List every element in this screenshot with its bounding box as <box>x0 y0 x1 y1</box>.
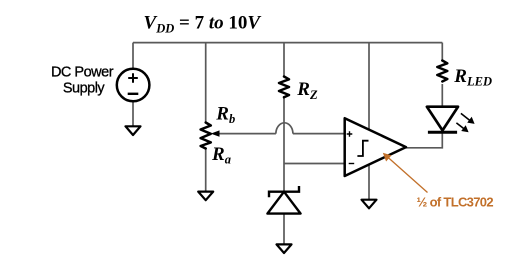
minus sign inside source <box>128 93 139 95</box>
wire comparator output to LED branch <box>406 133 443 148</box>
annotation arrow to comparator <box>387 157 428 193</box>
wire DC supply to ground <box>132 102 134 128</box>
LED diode triangle <box>427 107 458 131</box>
LED emission arrow 1 <box>461 113 470 120</box>
hysteresis step symbol <box>357 141 368 156</box>
ground below DC supply <box>126 126 141 135</box>
zener diode triangle <box>267 192 300 214</box>
potentiometer Rb/Ra resistor body <box>201 123 211 149</box>
DC power supply source circle <box>117 69 150 102</box>
op-amp comparator U1 triangle <box>345 118 406 176</box>
wire rail to RLED <box>441 43 443 61</box>
wire rail to Rb <box>205 43 207 123</box>
svg-text:RLED: RLED <box>453 66 492 89</box>
svg-text:VDD = 7 to 10V: VDD = 7 to 10V <box>144 13 262 36</box>
svg-text:Rb: Rb <box>215 103 235 126</box>
resistor RLED body <box>437 61 447 82</box>
ground below comparator <box>362 200 377 209</box>
ground below zener <box>277 244 292 253</box>
svg-text:½ of TLC3702: ½ of TLC3702 <box>417 195 494 210</box>
svg-text:DC Power: DC Power <box>51 65 114 81</box>
wire hop to comparator <box>293 133 345 135</box>
wiper arrow head <box>211 130 220 136</box>
plus input sign <box>347 131 353 137</box>
wire LED anode to RLED <box>441 84 443 108</box>
svg-text:Ra: Ra <box>211 144 231 167</box>
resistor RZ body <box>279 77 289 98</box>
wire zener to ground <box>283 214 285 246</box>
plus sign inside source <box>128 73 138 83</box>
wire VDD rail <box>133 42 442 44</box>
minus input sign <box>349 163 355 165</box>
wire Ra to ground <box>205 148 207 192</box>
LED emission arrow 2 <box>456 123 464 129</box>
wire RZ to zener node <box>283 96 285 192</box>
wire rail to comparator V+ <box>368 43 370 131</box>
svg-text:Supply: Supply <box>63 81 106 97</box>
wire hop over RZ branch <box>276 123 293 134</box>
LED cathode bar <box>428 131 457 134</box>
wire DC supply to rail <box>132 43 134 69</box>
zener diode cathode bar <box>269 186 299 197</box>
wire zener node to comparator minus input <box>284 163 345 165</box>
wire comparator V- to ground <box>368 164 370 200</box>
wire rail to RZ <box>283 43 285 77</box>
ground below Ra <box>198 192 213 201</box>
svg-text:RZ: RZ <box>296 79 318 102</box>
wire wiper to comparator plus input <box>214 133 276 135</box>
